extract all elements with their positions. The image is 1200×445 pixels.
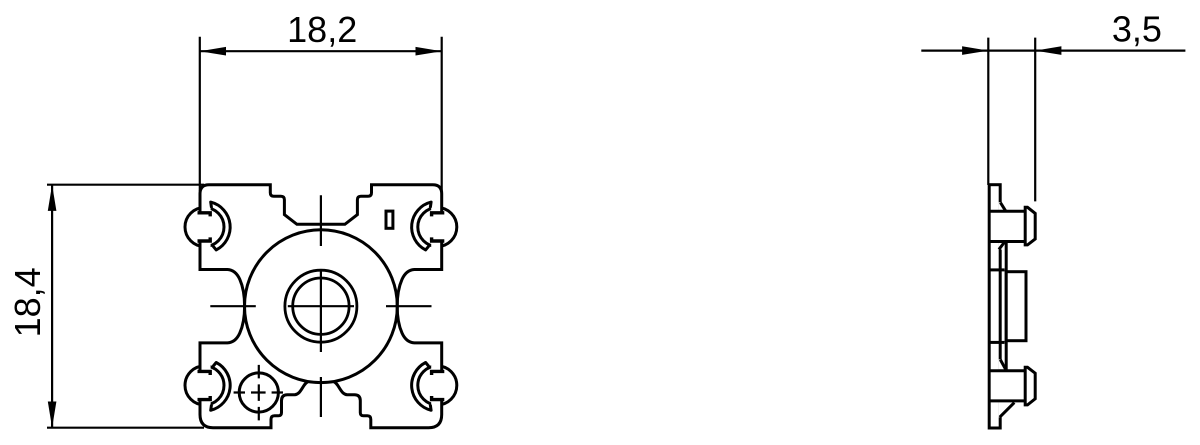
svg-text:18,2: 18,2 — [287, 9, 357, 50]
dimension 18,2 arrowhead right — [416, 47, 442, 56]
side view spring arm edge — [1005, 243, 1008, 371]
ear rivet circle — [185, 208, 224, 247]
dimension 18,2 dimension line — [200, 50, 442, 52]
dimension 18,4 arrowhead top — [48, 185, 57, 211]
svg-text:18,4: 18,4 — [7, 267, 48, 337]
outline: bottom-right notch and corner — [334, 382, 442, 428]
keying rectangle top-right — [386, 211, 393, 228]
dimension 18,2 extension line right — [441, 37, 443, 191]
side view bottom clip head — [1025, 367, 1035, 405]
dimension 18,2 extension line left — [199, 37, 201, 191]
ear bottom jaw bar — [198, 237, 211, 241]
side view erase plate edge below top clip — [999, 243, 1002, 250]
side view top clip inner diagonal — [999, 242, 1005, 249]
front view: horizontal centerline — [210, 305, 431, 307]
dimension 3,5 arrowhead right (points left) — [1035, 46, 1061, 55]
side view boss tick bottom — [989, 341, 1004, 344]
outline: right edge waist — [397, 241, 442, 371]
outline: bottom-left corner and notch left — [200, 382, 308, 428]
outline: top edge with key notch — [200, 185, 442, 225]
dimension 3,5 dimension line left outside — [921, 49, 988, 51]
side view erase plate edge inside bottom clip — [991, 369, 1024, 402]
side view plate — [989, 185, 1000, 428]
ear top jaw bar — [198, 213, 211, 217]
front view: vertical centerline — [320, 195, 322, 417]
side view erase plate edge inside top clip — [991, 210, 1024, 243]
side view bottom clip upper face — [989, 369, 1025, 372]
dimension 3,5 dimension line right outside — [1035, 49, 1185, 51]
ear erase top — [201, 203, 211, 211]
dimension 3,5 extension line left — [987, 38, 989, 185]
side view bottom clip root diagonal — [1000, 403, 1015, 418]
side view top clip upper face — [989, 210, 1025, 213]
dimension 3,5 extension line right — [1034, 38, 1036, 202]
dimension 18,4 dimension line — [51, 185, 53, 428]
ear spring C-arc — [211, 202, 230, 250]
small hole crosshair horizontal — [234, 391, 283, 393]
ear erase bottom — [201, 243, 211, 251]
mounting ear bottom-right — [412, 361, 457, 410]
side view central boss — [1006, 272, 1026, 341]
svg-text:3,5: 3,5 — [1112, 8, 1162, 49]
side view erase plate edge above bottom clip — [999, 359, 1002, 369]
side view top clip lower face — [989, 240, 1025, 243]
dimension 3,5 dimension line middle — [988, 49, 1035, 51]
small hole bottom-left — [239, 373, 278, 412]
side view erase plate edge at top clip root — [999, 202, 1002, 211]
side view bottom clip inner diagonal — [1000, 360, 1006, 371]
mounting ear top-right — [412, 202, 457, 251]
small hole crosshair vertical — [258, 365, 260, 421]
dimension 18,4 arrowhead bottom — [48, 402, 57, 428]
dimension 18,2 arrowhead left — [200, 47, 226, 56]
side view top clip root diagonal — [1000, 203, 1006, 212]
dimension 18,4 extension line bottom — [47, 427, 204, 429]
mounting ear bottom-left — [185, 361, 230, 410]
side view erase plate edge at bottom clip root — [999, 401, 1002, 418]
side view top clip head — [1025, 207, 1035, 245]
central boss circle — [245, 230, 398, 383]
central hole inner ring — [293, 278, 349, 334]
dimension 18,4 extension line top — [47, 184, 204, 186]
side view bottom clip lower face — [989, 399, 1025, 402]
side view boss tick top — [989, 268, 1004, 271]
dimension 3,5 arrowhead left (points right) — [962, 46, 988, 55]
outline: left edge upper waist — [200, 241, 245, 371]
central hole outer ring — [285, 270, 357, 342]
mounting ear top-left — [185, 202, 230, 251]
